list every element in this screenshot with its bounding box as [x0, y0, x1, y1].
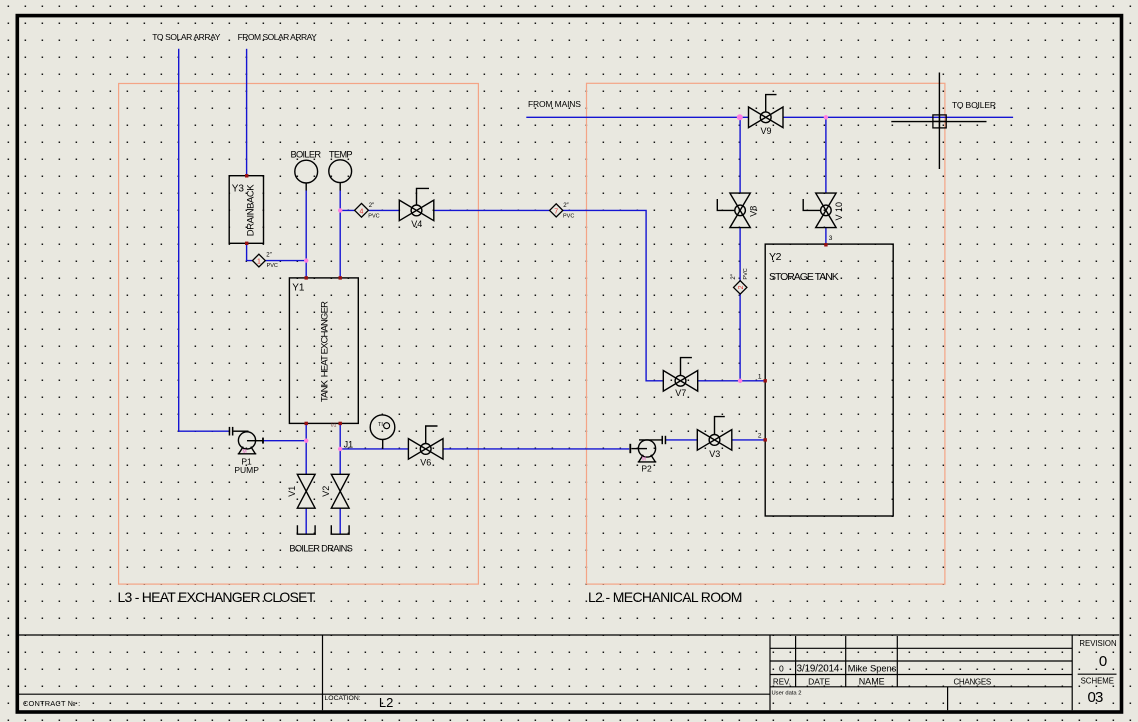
gauge TI inner circle: [384, 423, 390, 429]
svg-text:V8: V8: [748, 206, 758, 217]
pump P2 outlet line: [639, 439, 662, 441]
drain under V1: [297, 525, 316, 534]
svg-text:LOCATION:: LOCATION:: [325, 695, 361, 702]
junction mains / V8 branch: [737, 114, 743, 120]
wire temp junction to valve V4: [340, 209, 399, 211]
port tank 3: [824, 243, 827, 246]
svg-text:BOILER: BOILER: [291, 150, 322, 160]
gauge TI circle: [370, 415, 395, 440]
svg-text:CONTRACT № :: CONTRACT № :: [23, 699, 80, 708]
wire V10 branch drop to tank port 3: [825, 117, 827, 244]
svg-text:STORAGE TANK: STORAGE TANK: [769, 271, 839, 283]
port Y1 top-right: [339, 276, 342, 279]
port Y3 top: [245, 174, 248, 177]
svg-text:CHANGES: CHANGES: [953, 677, 990, 686]
valve V3: [697, 417, 732, 451]
svg-text:2″: 2″: [731, 273, 737, 279]
svg-text:TO SOLAR ARRAY: TO SOLAR ARRAY: [152, 32, 221, 42]
wire P2 outlet to valve V3: [666, 439, 698, 441]
svg-text:J1: J1: [344, 439, 354, 449]
svg-text:REVISION: REVISION: [1079, 639, 1116, 648]
diamond label 7: [550, 203, 575, 220]
svg-text:0: 0: [1099, 653, 1107, 670]
pump P1 outlet tick: [262, 438, 264, 444]
svg-text:NAME: NAME: [859, 676, 885, 686]
svg-text:3/19/2014: 3/19/2014: [797, 664, 840, 675]
junction P1 outlet / Y1 drop: [304, 439, 308, 443]
room L3 outline: [119, 84, 479, 585]
wire main run J1 to valve V6: [340, 448, 408, 450]
svg-text:03: 03: [1087, 689, 1103, 706]
svg-text:L3 - HEAT EXCHANGER CLOSET: L3 - HEAT EXCHANGER CLOSET: [118, 589, 316, 605]
svg-text:V3: V3: [709, 449, 720, 459]
svg-text:Y1: Y1: [292, 282, 305, 293]
wire V8 branch drop: [739, 117, 741, 381]
svg-text:TI: TI: [378, 422, 383, 428]
heat exchanger Y1 box: [289, 278, 358, 424]
svg-text:V 10: V 10: [834, 202, 844, 221]
svg-text:1: 1: [257, 259, 261, 266]
svg-text:PVC: PVC: [267, 263, 278, 269]
svg-text:V1: V1: [287, 486, 297, 497]
pump P1 foot: [238, 447, 257, 454]
room L2 outline: [587, 83, 945, 584]
wire from-mains header: [526, 116, 1013, 118]
svg-text:L2: L2: [379, 695, 393, 710]
junction temp stem / V4 line: [338, 208, 342, 212]
svg-text:PVC: PVC: [563, 214, 574, 220]
port tank 1: [764, 379, 767, 382]
wire V4 right through diamond7 corner down to valve V7: [434, 210, 664, 380]
port tank 2: [764, 438, 767, 441]
to-boiler square symbol: [933, 115, 946, 128]
svg-text:0: 0: [779, 663, 784, 673]
svg-text:M: M: [243, 449, 247, 455]
junction at diamond1 line / boiler stem: [304, 258, 308, 262]
pump P2 union bars: [662, 436, 664, 444]
wire Y1 left bottom port down through junction to valve V1: [305, 423, 307, 474]
svg-text:V2: V2: [321, 486, 331, 497]
svg-text:P2: P2: [641, 464, 652, 474]
wire to-solar-array down to pump P1 inlet: [179, 49, 229, 431]
title block texts: [23, 639, 1117, 710]
valve V1: [297, 474, 315, 508]
pump P2 inlet tick: [629, 444, 631, 453]
pump P1 outlet line: [247, 440, 263, 442]
svg-text:DRAINBACK: DRAINBACK: [246, 184, 257, 236]
svg-text:TANK HEAT EXCHANGER: TANK HEAT EXCHANGER: [320, 301, 331, 402]
wire temp stem: [339, 190, 341, 278]
svg-text:Y3: Y3: [232, 183, 245, 194]
svg-text:BOILER DRAINS: BOILER DRAINS: [289, 544, 352, 554]
svg-text:Mike Spens: Mike Spens: [848, 664, 897, 674]
boiler sensor stem: [305, 183, 307, 191]
valve V10: [803, 193, 836, 228]
tank Y3 drainback box: [229, 176, 263, 244]
svg-text:7: 7: [554, 208, 558, 215]
svg-text:V9: V9: [760, 126, 771, 136]
valve V4: [399, 188, 434, 220]
svg-text:DATE: DATE: [808, 676, 830, 686]
svg-text:3: 3: [829, 235, 833, 242]
svg-text:FROM SOLAR ARRAY: FROM SOLAR ARRAY: [238, 32, 318, 42]
pump P2 foot: [638, 455, 657, 462]
wire boiler stem: [305, 190, 307, 278]
drain under V2: [331, 525, 350, 534]
temp sensor circle: [329, 160, 352, 183]
valve V9: [749, 95, 784, 128]
svg-text:FROM MAINS: FROM MAINS: [528, 99, 581, 109]
storage tank Y2 box: [765, 244, 893, 516]
svg-text:PVC: PVC: [743, 268, 749, 279]
wire Y3 bottom to diamond1 to boiler stem junction: [247, 243, 307, 260]
wire P1 outlet to Y1 drop junction: [263, 440, 306, 442]
svg-text:V7: V7: [675, 388, 686, 398]
svg-text:User data 2: User data 2: [772, 691, 802, 697]
wire V3 to tank port 2: [732, 439, 765, 441]
junction J1: [338, 447, 342, 451]
diamond label 4: [355, 203, 380, 220]
svg-text:PVC: PVC: [368, 214, 379, 220]
valve V6: [408, 426, 443, 459]
valve V2: [331, 474, 349, 508]
temp sensor stem: [339, 183, 341, 191]
port Y3 bottom: [245, 242, 248, 245]
svg-text:V4: V4: [411, 219, 422, 229]
pump P1 circle: [238, 432, 255, 449]
junction V8 drop / V7 line: [738, 379, 742, 383]
svg-text:SCHEME: SCHEME: [1081, 676, 1114, 685]
wire V2 bottom to drain: [339, 508, 341, 534]
svg-text:4: 4: [360, 208, 364, 215]
svg-text:REV.: REV.: [773, 677, 791, 686]
svg-text:L2 - MECHANICAL ROOM: L2 - MECHANICAL ROOM: [588, 589, 742, 605]
svg-text:V6: V6: [420, 457, 431, 467]
valve V7: [663, 358, 697, 392]
pump P1 inlet tangent line: [233, 430, 248, 432]
svg-text:2″: 2″: [266, 253, 272, 259]
title block lines: [19, 635, 1119, 710]
wire from-solar-array down to Y3 top: [246, 49, 248, 176]
wire Y1 right bottom port down through J1 to valve V2: [339, 423, 341, 474]
wire V6 to pump P2 inlet: [443, 448, 629, 450]
valve V8: [717, 193, 750, 228]
boiler sensor circle: [295, 160, 318, 183]
svg-text:M: M: [642, 457, 646, 463]
pump P2 inlet line: [631, 448, 647, 450]
svg-text:TEMP: TEMP: [329, 150, 353, 160]
pump P1 union bars: [229, 427, 231, 436]
junction mains / V10 branch: [824, 115, 828, 119]
to-boiler crosshair vertical: [938, 73, 940, 170]
svg-text:2″: 2″: [369, 203, 375, 209]
svg-text:2: 2: [758, 432, 762, 439]
wire V7 to tank port 1: [698, 380, 766, 382]
diamond label 2: [731, 268, 749, 294]
diamond label 1: [253, 253, 278, 269]
svg-text:PUMP: PUMP: [234, 465, 259, 475]
svg-text:Y2: Y2: [769, 251, 782, 263]
svg-text:2: 2: [738, 285, 745, 289]
port Y1 top-left: [305, 276, 308, 279]
to-boiler crosshair horizontal: [891, 121, 986, 123]
wire V1 bottom to drain: [305, 508, 307, 534]
port Y1 bottom-right: [339, 422, 342, 425]
svg-text:01: 01: [331, 422, 337, 428]
port Y1 bottom-left: [305, 422, 308, 425]
svg-text:1: 1: [758, 373, 762, 380]
pump P2 circle: [638, 440, 655, 457]
svg-text:2″: 2″: [563, 203, 569, 209]
gauge TI stem: [382, 440, 384, 449]
svg-text:TO BOILER: TO BOILER: [952, 100, 996, 110]
